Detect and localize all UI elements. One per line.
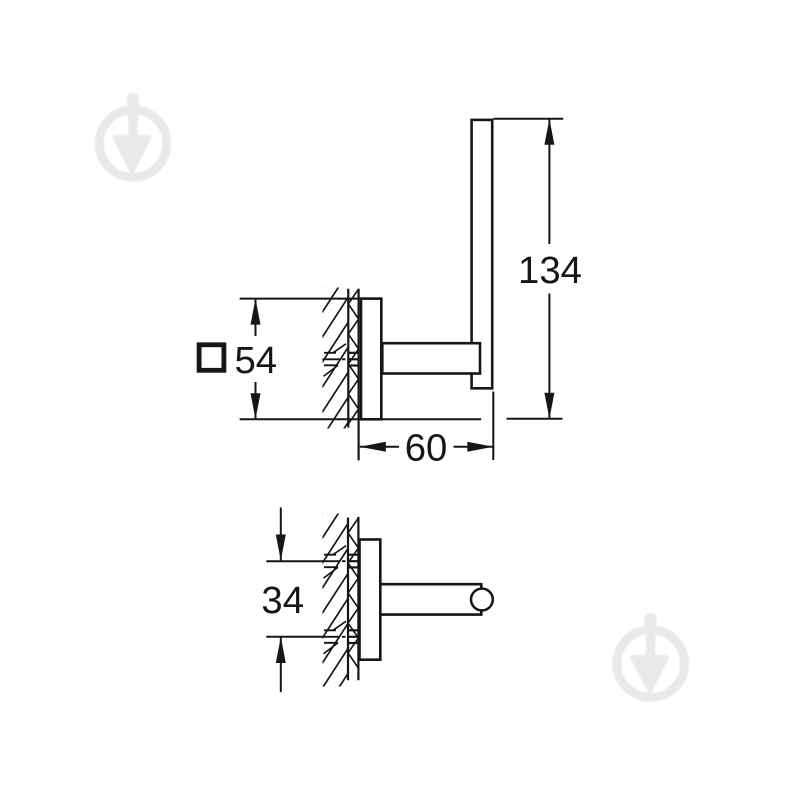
svg-text:134: 134 <box>518 249 582 292</box>
wall plate (top view) <box>361 299 381 420</box>
wall line A (bottom view) <box>347 518 349 681</box>
horizontal arm of holder <box>382 343 480 373</box>
dimension 134 <box>494 118 564 120</box>
dimension 60 <box>492 392 494 461</box>
rod end ball <box>471 589 493 611</box>
wall line A (top view) <box>347 289 349 428</box>
vertical bar of holder <box>472 120 493 388</box>
wall zigzag layer (bottom view) <box>348 518 358 668</box>
wall surface line B (bottom view) <box>357 517 359 680</box>
rod bottom line <box>380 613 481 616</box>
mounting hole marks lower (bottom view) <box>324 629 336 631</box>
wall plate (bottom view) <box>360 540 381 660</box>
rod top line <box>380 583 481 586</box>
watermark logo bottom-right <box>617 613 685 698</box>
wall zigzag layer (top view) <box>348 289 358 424</box>
svg-text:60: 60 <box>405 426 448 469</box>
dimension 34 <box>280 507 282 560</box>
svg-text:54: 54 <box>234 339 277 382</box>
rod end cap line <box>480 583 483 616</box>
dimension 54 with square symbol <box>240 298 382 300</box>
wall surface line B / 60-dim extension (top view) <box>358 289 360 461</box>
mounting hole marks (top view) <box>324 352 336 354</box>
mounting hole marks upper (bottom view) <box>324 554 336 556</box>
svg-text:34: 34 <box>261 579 304 622</box>
watermark logo top-left <box>99 93 167 178</box>
